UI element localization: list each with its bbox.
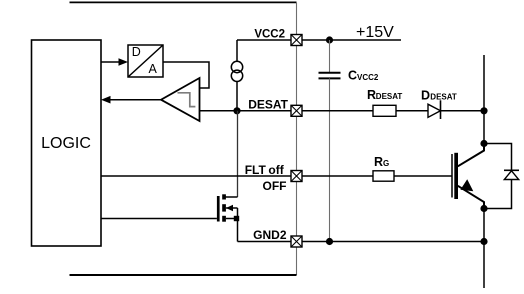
svg-text:GND2: GND2 bbox=[253, 228, 287, 242]
svg-text:FLToff: FLToff bbox=[245, 163, 285, 177]
svg-text:D: D bbox=[132, 45, 141, 59]
svg-text:DESAT: DESAT bbox=[430, 93, 457, 102]
svg-text:OFF: OFF bbox=[263, 179, 287, 193]
svg-text:D: D bbox=[421, 89, 430, 103]
svg-text:R: R bbox=[367, 88, 376, 102]
svg-text:+15V: +15V bbox=[356, 24, 394, 41]
svg-text:DESAT: DESAT bbox=[376, 92, 403, 101]
svg-text:G: G bbox=[383, 159, 389, 168]
svg-text:C: C bbox=[348, 68, 357, 82]
svg-text:VCC2: VCC2 bbox=[254, 28, 285, 40]
svg-text:LOGIC: LOGIC bbox=[41, 135, 91, 152]
svg-text:R: R bbox=[374, 155, 383, 169]
svg-text:VCC2: VCC2 bbox=[357, 73, 379, 82]
svg-text:DESAT: DESAT bbox=[248, 98, 288, 112]
svg-text:A: A bbox=[149, 62, 158, 76]
